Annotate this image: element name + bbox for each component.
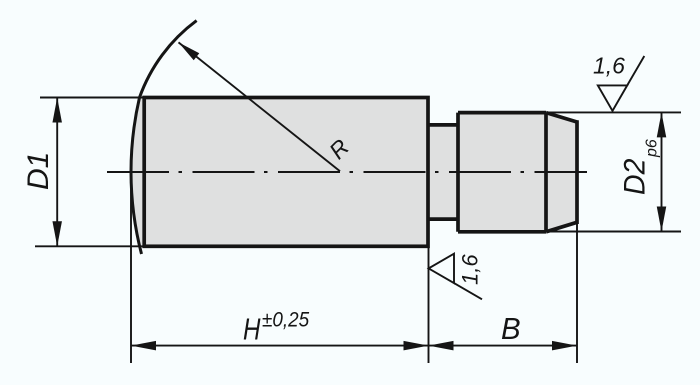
svg-text:D1: D1 <box>22 152 55 190</box>
svg-text:1,6: 1,6 <box>458 254 483 285</box>
D2 extension line top <box>548 111 681 113</box>
chamfer top slant <box>546 113 577 122</box>
centerline <box>107 171 587 173</box>
D1 extension line bottom <box>35 245 144 247</box>
D2 extension line bottom <box>548 231 681 233</box>
svg-text:p6: p6 <box>644 139 661 158</box>
H/B extension line middle <box>428 246 430 363</box>
chamfer start line <box>544 113 548 232</box>
shank bottom edge <box>458 230 546 234</box>
shank top edge <box>458 111 546 115</box>
H arrow right <box>404 341 429 351</box>
B extension line right <box>576 224 578 363</box>
D1 arrow top <box>52 98 62 123</box>
B dimension line <box>429 345 578 347</box>
shank left end face <box>456 113 460 232</box>
shank right end face <box>575 120 579 224</box>
H extension line left <box>130 172 132 363</box>
svg-text:B: B <box>501 312 521 346</box>
D1 dimension line <box>56 98 58 247</box>
D1 extension line top <box>40 97 144 99</box>
D2 dimension line <box>661 112 663 231</box>
D1 arrow bottom <box>52 221 62 246</box>
neck bottom edge <box>428 217 458 221</box>
R arrow <box>179 42 200 60</box>
surface finish tail at neck <box>454 283 482 299</box>
D2 arrow bottom <box>657 207 667 232</box>
H dimension line <box>131 345 429 347</box>
surface finish tail top right <box>627 56 644 85</box>
spherical end arc R <box>131 21 197 254</box>
R leader line <box>179 42 341 171</box>
surface finish symbol at neck <box>429 254 454 283</box>
svg-text:D2: D2 <box>619 159 652 195</box>
neck top edge <box>428 123 458 127</box>
part fill silhouette <box>131 98 577 247</box>
D2 arrow top <box>657 112 667 137</box>
chamfer bottom slant <box>546 222 577 232</box>
B arrow left <box>429 341 454 351</box>
body outline <box>144 98 428 247</box>
surface finish symbol top right <box>598 85 627 110</box>
B arrow right <box>552 341 577 351</box>
svg-text:1,6: 1,6 <box>593 53 625 79</box>
svg-text:±0,25: ±0,25 <box>262 309 310 332</box>
H arrow left <box>131 341 156 351</box>
svg-text:H: H <box>243 311 261 346</box>
